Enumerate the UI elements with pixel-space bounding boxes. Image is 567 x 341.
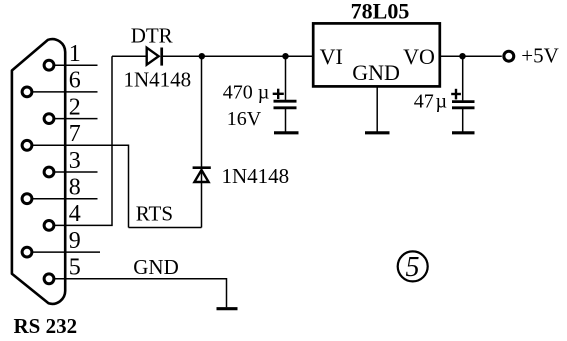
diode D1 1N4148 triangle	[147, 48, 159, 65]
wire pin 1 stub	[49, 64, 97, 66]
pin 4	[44, 221, 54, 231]
ground symbol for pin 5 GND wire	[217, 307, 238, 310]
node junction dot at capacitor C2	[459, 53, 465, 59]
ground symbol for C1	[274, 131, 299, 134]
capacitor C1 470u top lead	[285, 56, 287, 100]
pin 2	[44, 114, 54, 124]
svg-text:16V: 16V	[227, 108, 262, 130]
svg-text:4: 4	[69, 201, 81, 227]
pin 6	[22, 87, 32, 97]
svg-text:+5V: +5V	[521, 44, 559, 68]
wire pin 9 stub	[27, 251, 100, 253]
wire U1 GND pin lead	[376, 86, 378, 131]
node junction dot at capacitor C1	[282, 53, 288, 59]
wire pin 8 stub	[27, 198, 98, 200]
svg-text:7: 7	[69, 121, 81, 147]
svg-text:3: 3	[69, 148, 81, 174]
svg-text:1N4148: 1N4148	[124, 67, 192, 91]
wire main rail from diode D1 to regulator input	[162, 55, 314, 57]
wire main DTR rail left segment	[112, 55, 146, 57]
wire pin 2 stub	[49, 118, 97, 120]
node A junction dot (diodes meet)	[199, 53, 205, 59]
svg-text:8: 8	[69, 175, 81, 201]
diode D1 cathode bar	[160, 48, 163, 66]
wire diode D2 vertical net	[201, 56, 203, 227]
pin 8	[22, 194, 32, 204]
svg-text:VO: VO	[403, 44, 435, 69]
wire pin 4 DTR net: right then up to diode D1	[49, 56, 112, 225]
wire pin 3 stub	[49, 171, 97, 173]
capacitor C2 bottom plate	[452, 106, 475, 109]
capacitor C1 plus polarity mark	[273, 89, 284, 99]
diode D2 1N4148 triangle	[194, 170, 208, 182]
pin 9	[22, 247, 32, 257]
wire pin 7 RTS net: right then down to RTS wire	[27, 145, 129, 227]
svg-text:1: 1	[69, 41, 81, 67]
terminal +5V open circle	[504, 51, 514, 61]
svg-text:2: 2	[69, 94, 81, 120]
capacitor C1 top plate	[274, 100, 297, 103]
pin 5	[44, 274, 54, 284]
pin 7	[22, 140, 32, 150]
regulator U1 78L05 box	[313, 23, 440, 86]
svg-text:470 µ: 470 µ	[223, 81, 270, 103]
wire pin 6 stub	[27, 91, 98, 93]
svg-text:5: 5	[406, 252, 420, 283]
capacitor C1 bottom plate	[274, 106, 297, 109]
svg-text:RS 232: RS 232	[14, 314, 78, 338]
capacitor C2 plus polarity mark	[451, 89, 461, 100]
wire output rail from VO to terminal	[440, 55, 502, 57]
wire RTS horizontal segment	[129, 227, 202, 229]
svg-text:GND: GND	[352, 60, 400, 85]
wire pin 5 GND net: right then down to ground	[49, 279, 226, 307]
ground symbol for C2	[452, 131, 475, 134]
ground symbol for U1 GND	[365, 131, 390, 134]
svg-text:9: 9	[69, 228, 81, 254]
capacitor C2 bottom lead	[462, 109, 464, 132]
connector J1 RS232 DB9 shell	[12, 39, 65, 304]
svg-text:DTR: DTR	[131, 24, 173, 48]
capacitor C2 47u top lead	[462, 56, 464, 100]
svg-text:GND: GND	[133, 255, 179, 279]
svg-text:VI: VI	[320, 44, 343, 69]
pin 3	[44, 167, 54, 177]
svg-text:6: 6	[69, 68, 81, 94]
svg-text:5: 5	[69, 255, 81, 281]
svg-text:47µ: 47µ	[414, 90, 447, 112]
pin 1	[44, 60, 54, 70]
diode D2 cathode bar	[193, 166, 211, 169]
svg-text:RTS: RTS	[136, 202, 173, 226]
capacitor C1 bottom lead	[285, 109, 287, 132]
capacitor C2 top plate	[452, 100, 475, 103]
svg-text:78L05: 78L05	[351, 0, 410, 24]
svg-text:1N4148: 1N4148	[222, 164, 290, 188]
figure number circle 5	[398, 251, 428, 281]
